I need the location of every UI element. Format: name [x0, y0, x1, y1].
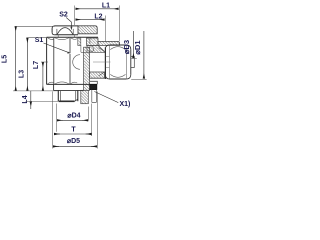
svg-text:L4: L4	[22, 95, 29, 103]
svg-text:⌀D5: ⌀D5	[67, 138, 80, 145]
svg-text:⌀D4: ⌀D4	[67, 113, 80, 120]
svg-text:L7: L7	[33, 61, 40, 69]
svg-text:S1: S1	[35, 37, 44, 44]
ring / washer at stud base	[54, 84, 84, 90]
nut S2 outside view left half	[52, 26, 78, 37]
svg-text:L5: L5	[2, 55, 9, 63]
svg-text:⌀D3: ⌀D3	[122, 40, 131, 54]
hatch: stud tip right wall section	[81, 90, 89, 103]
dimension D5	[53, 92, 98, 149]
svg-text:S2: S2	[59, 11, 68, 18]
dimension L4	[22, 91, 31, 109]
hatch: body around bore	[81, 45, 105, 52]
cone seat chamfer lines in port bore	[98, 48, 105, 76]
svg-text:T: T	[71, 127, 76, 134]
dimension D4	[57, 104, 89, 132]
bore circle	[73, 55, 80, 70]
body S1 hex outside view	[47, 37, 98, 84]
dimension L2	[76, 13, 106, 41]
body shoulder step right	[90, 81, 98, 84]
hatch: port top wall	[98, 41, 120, 45]
tube stub at nut right	[131, 57, 135, 68]
dimension L3	[18, 38, 47, 91]
label S1 with leader	[35, 37, 71, 54]
cone seat detail in body	[90, 39, 94, 52]
dimension T	[54, 104, 92, 137]
dimension L5	[2, 26, 56, 91]
dimension D3	[122, 31, 137, 59]
seal ring X1 (dark)	[90, 84, 97, 89]
hatch: body section right of centre	[78, 38, 98, 45]
extension line stud tip	[26, 100, 59, 102]
label S2 with leader	[59, 11, 72, 30]
stud with thread, outside view	[58, 90, 78, 101]
hatch: port bottom wall	[90, 72, 105, 78]
svg-text:⌀D1: ⌀D1	[133, 40, 142, 55]
dimension L1	[75, 3, 120, 41]
dimension D1	[131, 31, 146, 80]
port centreline	[93, 61, 111, 63]
label X1 with leader	[94, 92, 130, 109]
hatch: stud right wall section	[84, 47, 90, 90]
ring retainer below seal	[92, 90, 97, 103]
extension line stud bottom left	[13, 90, 58, 92]
svg-text:L3: L3	[18, 70, 25, 78]
hatch: bolt head section right half	[78, 26, 97, 34]
svg-text:X1): X1)	[120, 101, 131, 108]
port nut side view	[105, 45, 130, 79]
dimension L7	[33, 61, 48, 91]
